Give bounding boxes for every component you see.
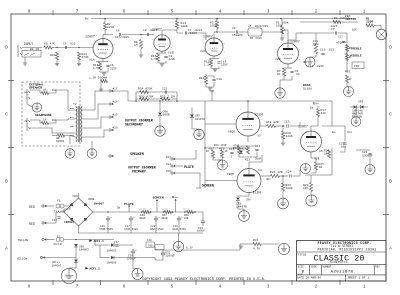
wire tone chain — [346, 40, 348, 72]
connector pin 19 — [109, 116, 113, 118]
svg-text:470K: 470K — [82, 56, 89, 59]
wire primary tap1 — [83, 91, 109, 110]
wire C1 to V2A grid — [188, 33, 206, 40]
resistor R4 top — [333, 20, 341, 23]
capacitor C23 — [57, 217, 60, 218]
resistor R15 1.5K cathode V1B — [156, 53, 159, 61]
capacitor C37 — [115, 245, 118, 246]
svg-text:B: B — [5, 179, 8, 185]
tube V2A — [203, 38, 225, 56]
diode CR8 — [158, 113, 162, 116]
reverb circuit box — [305, 148, 332, 175]
wire heater row2 — [95, 244, 110, 246]
capacitor C31 — [131, 249, 135, 255]
wire diode chain — [75, 247, 77, 268]
wire V1B cathode to ground — [158, 61, 166, 64]
svg-text:68K: 68K — [303, 187, 309, 190]
fuse F1 — [56, 204, 64, 208]
junction R20 node — [282, 125, 284, 127]
dashed chassis box — [22, 82, 80, 146]
capacitor C10 — [321, 53, 324, 54]
svg-text:.022: .022 — [339, 146, 346, 149]
wire c32 bottom — [155, 257, 163, 260]
input jack J1 — [18, 45, 22, 57]
capacitor C27 filter — [129, 216, 133, 222]
svg-text:ORG: ORG — [70, 134, 75, 137]
svg-text:470R: 470R — [233, 145, 240, 148]
wire rail end to C33 — [202, 212, 204, 218]
svg-text:(Bls): (Bls) — [52, 260, 60, 264]
svg-text:C5 .022F/63V: C5 .022F/63V — [248, 24, 268, 28]
wire primary tap4 — [83, 130, 109, 137]
wire c32 stub — [162, 250, 164, 251]
svg-text:R34 470K: R34 470K — [138, 88, 153, 91]
svg-text:F1: F1 — [57, 200, 61, 203]
svg-text:#15: #15 — [166, 170, 171, 173]
svg-text:5A/FB: 5A/FB — [54, 242, 62, 246]
svg-text:V4: V4 — [258, 168, 262, 172]
svg-text:1N4978: 1N4978 — [195, 118, 205, 121]
wire heater row3 — [100, 257, 110, 259]
svg-text:C37: C37 — [114, 241, 119, 244]
svg-text:D: D — [389, 45, 392, 51]
svg-text:R42: R42 — [52, 89, 57, 92]
pot P3 MIDDLE element — [345, 54, 348, 61]
ground cathode V1B — [160, 64, 164, 66]
svg-text:5: 5 — [171, 283, 174, 289]
svg-text:1K: 1K — [43, 119, 47, 122]
circled ground R28 — [306, 195, 317, 206]
svg-text:2200UF: 2200UF — [127, 257, 137, 260]
tube V3 EL84 — [234, 112, 262, 136]
wire DC rail — [93, 211, 203, 213]
svg-text:12AX7: 12AX7 — [203, 35, 213, 39]
junction rail a — [107, 211, 109, 213]
wire diodes node — [350, 106, 368, 108]
capacitor C24 — [287, 124, 288, 127]
resistor R33 2.2M — [161, 97, 170, 100]
svg-text:1K: 1K — [277, 73, 281, 76]
wire R24 to C19 — [280, 175, 289, 177]
resistor R8 68K — [314, 45, 317, 54]
wire tail bottom — [206, 82, 214, 87]
svg-text:100K: 100K — [276, 25, 283, 28]
wire R40 out — [65, 136, 71, 145]
wire ext spk jack wiring — [30, 90, 42, 93]
svg-text:1N4003: 1N4003 — [79, 248, 89, 251]
wire tail top — [206, 74, 214, 78]
svg-text:1N4003: 1N4003 — [52, 265, 62, 268]
ground cathode V1A — [102, 73, 106, 75]
wire yellow1 to fuse2 — [46, 239, 55, 241]
wire heater row2 out — [114, 244, 133, 246]
bridge rectifier CR9 — [64, 198, 93, 226]
wire V3 plate up — [247, 101, 249, 112]
circled ground below box right — [87, 149, 97, 159]
capacitor C4 coupling — [119, 33, 120, 36]
svg-text:R19 47R: R19 47R — [266, 121, 279, 124]
wire gnd to R31 — [241, 243, 253, 245]
svg-text:A2021B7B: A2021B7B — [331, 270, 354, 274]
wire bus to circled ground — [178, 233, 180, 241]
svg-text:3: 3 — [267, 9, 270, 15]
connector pin red1 — [42, 205, 46, 207]
diode CR13 — [111, 256, 114, 260]
svg-text:4R7: 4R7 — [266, 178, 271, 181]
svg-text:1N4007: 1N4007 — [64, 221, 75, 224]
wire fuse2 right — [64, 239, 114, 241]
wire long signal bus — [136, 100, 332, 102]
tube V1B — [152, 35, 172, 51]
wire primary tap2 — [83, 104, 109, 119]
connector pin 17 — [109, 90, 113, 92]
diode CR5 — [236, 198, 240, 201]
wire V4 plate up — [249, 155, 262, 169]
circled ground bass — [344, 87, 354, 97]
wire heater right rise — [240, 244, 241, 250]
svg-text:2: 2 — [152, 39, 153, 41]
svg-text:R24 47R: R24 47R — [270, 171, 283, 174]
resistor R39 in jack network — [42, 91, 49, 94]
diode CR2 bias — [239, 151, 243, 154]
svg-text:YELLOW: YELLOW — [17, 257, 28, 260]
wire V3 grid — [205, 123, 236, 125]
svg-text:1: 1 — [114, 44, 115, 46]
svg-text:R18: R18 — [199, 77, 205, 80]
arrow ACF1.1 — [89, 240, 92, 242]
wire CR5 down — [237, 201, 239, 209]
wire R2 to plate node — [105, 31, 113, 35]
wire c31 bottom — [132, 255, 134, 269]
svg-text:1.5K: 1.5K — [93, 67, 100, 70]
circled ground V5 — [301, 164, 311, 174]
wire heater row3 out — [114, 257, 155, 259]
capacitor C5 cathode bypass V1A — [106, 65, 109, 66]
wire hp jack wiring — [30, 120, 42, 123]
wire R20 bottom — [282, 139, 284, 143]
circled ground filter bank — [173, 241, 183, 251]
diode CR4 — [361, 105, 364, 109]
wire C19 right — [293, 170, 301, 176]
resistor R10 220K — [55, 52, 58, 60]
capacitor C9 cathode bypass V2B — [290, 71, 293, 72]
svg-text:SHEET 1 OF 1: SHEET 1 OF 1 — [348, 277, 370, 280]
wire down to C20 — [344, 126, 346, 141]
svg-text:SIZE: SIZE — [298, 265, 304, 268]
wire top right rail — [300, 21, 358, 23]
connector pin 13 — [171, 158, 175, 160]
svg-text:6BQ5: 6BQ5 — [228, 131, 235, 134]
svg-text:2: 2 — [203, 43, 204, 45]
capacitor C16 cathode bypass V2A — [217, 62, 220, 63]
grid ticks right — [383, 81, 389, 215]
capacitor C28 filter — [154, 216, 158, 222]
svg-text:1.5K: 1.5K — [151, 58, 158, 61]
svg-text:7: 7 — [240, 109, 241, 111]
svg-text:1: 1 — [299, 49, 300, 51]
svg-text:CR9: CR9 — [73, 195, 79, 198]
circled ground bias — [218, 160, 228, 170]
pot P2 TREBLE element — [345, 45, 348, 52]
svg-text:T1A/FB: T1A/FB — [54, 210, 65, 214]
svg-text:C7: C7 — [331, 28, 335, 31]
junction bus at CR8 — [159, 100, 161, 102]
svg-text:3: 3 — [267, 283, 270, 289]
svg-text:C10 .022: C10 .022 — [320, 49, 335, 52]
svg-text:1N4007: 1N4007 — [94, 203, 105, 206]
wire V2B cathode down — [287, 64, 289, 69]
wire B++ drop — [317, 106, 319, 108]
ground under R10 — [55, 64, 59, 66]
wire V2B cathode split — [284, 67, 292, 69]
svg-text:7: 7 — [76, 283, 79, 289]
resistor R22 cathode V3 — [246, 146, 249, 154]
svg-text:2: 2 — [234, 119, 235, 121]
resistor R26 220K — [281, 183, 284, 191]
svg-text:P5 50K: P5 50K — [352, 116, 362, 119]
svg-text:MS3: MS3 — [345, 71, 351, 74]
svg-text:3: 3 — [299, 59, 300, 61]
svg-text:50UF: 50UF — [255, 158, 262, 161]
junction V2A plate node — [216, 31, 218, 33]
wire R11 to ground — [78, 60, 80, 64]
svg-text:4: 4 — [219, 9, 222, 15]
svg-text:2: 2 — [315, 9, 318, 15]
junction rail g — [194, 211, 196, 213]
svg-text:TITLE: TITLE — [298, 253, 307, 256]
svg-text:.1: .1 — [229, 156, 233, 159]
svg-text:1N497B: 1N497B — [236, 206, 247, 209]
svg-text:C: C — [5, 112, 8, 118]
wire c31 to gnd — [133, 268, 138, 270]
ground heater end — [239, 246, 243, 248]
svg-text:BLU: BLU — [70, 116, 75, 119]
svg-text:47UF/450V: 47UF/450V — [99, 227, 113, 231]
wire CR8 to ground — [159, 116, 161, 126]
external speaker jack J2 — [27, 89, 30, 101]
junction rail b — [141, 211, 143, 213]
svg-text:4.7K: 4.7K — [253, 248, 260, 251]
wire secondary tap4 — [70, 136, 76, 138]
jack switch contact box — [22, 51, 41, 58]
wire V5 cathode to parts — [311, 152, 316, 162]
circled ground master — [351, 117, 361, 127]
wire fb bottom — [136, 98, 177, 100]
wire box to volume pot — [262, 31, 282, 33]
wire heater to right — [155, 247, 240, 250]
wire plate takeoff stem — [128, 206, 130, 212]
wire R8 to C6 — [52, 47, 93, 49]
wire B+ to R2 — [104, 19, 106, 23]
wire plate arrow — [176, 165, 183, 167]
capacitor C14 — [303, 61, 306, 62]
wire R19 to C24 — [276, 125, 286, 127]
wire CR8 from bus — [159, 101, 161, 112]
svg-text:12AX7: 12AX7 — [298, 125, 308, 129]
svg-text:V2A: V2A — [200, 49, 206, 53]
circled ground CR8 — [155, 126, 165, 136]
svg-text:40UF/450V: 40UF/450V — [150, 227, 164, 231]
resistor R25 1W — [314, 162, 317, 170]
connector pin 20 — [109, 129, 113, 131]
svg-text:C23: C23 — [52, 219, 57, 222]
wire cap c27 stub — [130, 222, 132, 233]
wire B+ rail — [91, 18, 356, 20]
svg-text:C13: C13 — [338, 36, 343, 39]
svg-text:R33 2.2M: R33 2.2M — [160, 96, 175, 99]
wire V1B cathode split — [158, 52, 166, 54]
svg-text:.68: .68 — [295, 73, 300, 76]
wire V3 cathode join — [239, 152, 257, 157]
wire cathode V1A down — [102, 59, 104, 62]
wire B+ to R3 — [216, 19, 218, 21]
wire V2B cathode to circled ground — [280, 76, 292, 88]
svg-text:400R: 400R — [139, 217, 146, 220]
svg-text:400R: 400R — [161, 217, 168, 220]
svg-text:1500PF: 1500PF — [232, 34, 243, 37]
junction rail e — [172, 211, 174, 213]
junction B+ at V1B load — [176, 18, 178, 20]
svg-text:5: 5 — [171, 9, 174, 15]
capacitor C8 1500PF — [236, 30, 237, 33]
wire jack to gnd — [27, 101, 33, 108]
junction V3 plate — [247, 100, 249, 102]
wire fb left join — [135, 92, 137, 101]
svg-text:220R: 220R — [366, 20, 373, 23]
resistor R29 bias — [220, 150, 223, 158]
wire V2A cathode to ground — [211, 67, 219, 70]
wire secondary tap3 — [68, 132, 76, 134]
capacitor C29 filter — [177, 216, 181, 222]
svg-text:RED: RED — [29, 205, 35, 209]
wire CR5 to ground — [192, 128, 199, 130]
diode CR3 — [354, 105, 357, 109]
svg-text:1K: 1K — [225, 150, 229, 153]
svg-text:1N4005: 1N4005 — [107, 262, 117, 265]
resistor R19 47R — [267, 124, 276, 127]
junction rail f — [184, 211, 186, 213]
svg-text:DATE 24-MAR-94: DATE 24-MAR-94 — [297, 277, 321, 280]
fuse F2 — [56, 238, 64, 242]
wire C20 down — [340, 146, 345, 152]
svg-text:3: 3 — [224, 51, 225, 53]
capacitor C20 .022 — [343, 143, 346, 144]
ground under R6 — [139, 55, 143, 57]
ground input jack — [23, 63, 27, 65]
svg-text:8200: 8200 — [107, 26, 114, 29]
svg-text:R30 470K: R30 470K — [139, 96, 154, 99]
svg-text:YELLOW: YELLOW — [18, 239, 29, 242]
resistor R13 100K plate load V1B — [175, 21, 178, 29]
wire tone stack feed — [300, 32, 312, 34]
svg-text:C24: C24 — [347, 131, 352, 134]
capacitor C22 — [165, 90, 166, 93]
wire R3 to V2A plate — [214, 29, 217, 38]
svg-text:PLATE: PLATE — [184, 165, 194, 169]
capacitor C6 — [65, 46, 66, 49]
tube V4 EL84 — [235, 169, 263, 193]
svg-text:#19: #19 — [113, 114, 118, 117]
svg-text:V1B: V1B — [168, 51, 174, 55]
wire secondary tap2 — [68, 119, 76, 120]
resistor R40 8R — [58, 134, 65, 137]
wire R8 to circled ground — [310, 54, 316, 58]
resistor R1 220R — [366, 24, 374, 27]
svg-text:BRN: BRN — [70, 107, 75, 110]
svg-text:C24: C24 — [286, 171, 292, 174]
svg-text:1: 1 — [261, 119, 262, 121]
boxed label C40 45 — [146, 242, 155, 247]
svg-text:C13: C13 — [284, 121, 290, 124]
svg-text:VR5: VR5 — [358, 101, 364, 104]
wire V2A cathode split — [211, 58, 219, 60]
resistor R18 1M tail — [204, 76, 207, 84]
wire pin17 to fb node — [113, 91, 136, 101]
svg-text:R28 470R: R28 470R — [214, 144, 227, 147]
circled ground C21 — [365, 165, 375, 175]
svg-text:220K: 220K — [286, 135, 293, 138]
svg-text:CODE: CODE — [311, 265, 317, 268]
junction rail c — [150, 211, 152, 213]
svg-text:100UF: 100UF — [197, 230, 205, 233]
connector pin yellow1 — [42, 238, 46, 240]
svg-text:F2: F2 — [57, 235, 61, 238]
wire R28 top — [310, 175, 312, 183]
svg-text:TREBLE: TREBLE — [351, 47, 362, 51]
wire V3 cathode down — [247, 136, 249, 142]
wire small part — [100, 81, 102, 89]
svg-text:2: 2 — [235, 175, 236, 177]
pilot lamp circle — [376, 29, 387, 40]
wire primary tap3 — [83, 117, 109, 128]
svg-text:INPUT: INPUT — [24, 42, 34, 46]
svg-text:SCREEN: SCREEN — [153, 195, 164, 199]
svg-text:10K: 10K — [184, 217, 189, 220]
svg-text:1: 1 — [363, 283, 366, 289]
svg-text:150K: 150K — [210, 25, 217, 28]
svg-text:R9 1M: R9 1M — [30, 48, 39, 51]
svg-text:.022F: .022F — [329, 25, 338, 28]
svg-text:C: C — [389, 112, 392, 118]
svg-text:6.3V: 6.3V — [186, 246, 193, 249]
svg-text:1: 1 — [363, 9, 366, 15]
capacitor C11 470PF — [342, 41, 345, 42]
resistor R23 1K — [327, 150, 330, 158]
grid ticks left — [8, 81, 14, 215]
svg-text:SPEAKER: SPEAKER — [29, 85, 42, 89]
wire heater drop — [94, 240, 96, 246]
wire screen takeoff stem — [156, 200, 158, 213]
circled ground ext speaker — [32, 103, 41, 112]
svg-text:C18: C18 — [217, 78, 223, 81]
svg-text:1K: 1K — [206, 150, 210, 153]
wire pin13 right — [176, 150, 196, 159]
junction pi bus — [204, 147, 206, 149]
wire secondary taps — [68, 90, 76, 110]
diode CR11 — [74, 260, 78, 263]
svg-text:6: 6 — [123, 9, 126, 15]
svg-text:#17: #17 — [113, 88, 118, 91]
wire V3 cathode split — [239, 145, 257, 147]
wire diodes to ground — [355, 107, 357, 117]
ground small top — [99, 89, 103, 91]
junction fb node right — [176, 100, 178, 102]
svg-text:1K: 1K — [43, 89, 47, 92]
resistor R27 bias — [211, 150, 214, 158]
svg-text:[45]: [45] — [148, 244, 154, 247]
resistor R35 small — [101, 79, 108, 82]
svg-text:B+: B+ — [85, 18, 89, 21]
